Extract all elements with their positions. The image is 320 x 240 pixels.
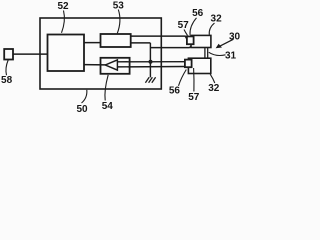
leader for 58	[6, 60, 8, 75]
wire 52 to 53	[84, 42, 101, 44]
ground symbol	[145, 77, 155, 83]
leader for 54	[105, 75, 108, 101]
wire 52 to 54 (amplifier input)	[84, 64, 106, 66]
svg-text:58: 58	[1, 75, 13, 86]
svg-text:32: 32	[208, 83, 220, 94]
leader for 56 (bottom)	[179, 70, 187, 86]
block 53	[101, 34, 131, 47]
leader for 32 (top)	[209, 23, 214, 35]
contact 56/57 (bottom)	[185, 60, 192, 68]
wire Q: amp output 2 to bottom contact	[117, 66, 186, 68]
ground drop wire	[149, 43, 151, 78]
wire D: branch to top contact lower pin	[150, 45, 193, 48]
svg-text:56: 56	[169, 86, 181, 97]
leader for 50	[82, 90, 87, 103]
contact 57/56 (top)	[187, 36, 194, 44]
connector box 32 (bottom)	[188, 58, 210, 73]
svg-text:57: 57	[188, 92, 200, 103]
svg-text:31: 31	[225, 51, 237, 62]
wire B: 53 lower output	[131, 42, 151, 44]
op-amp triangle in 54	[105, 60, 117, 70]
leader for 57 (top)	[184, 30, 188, 36]
wire P: amp output to bottom contact	[117, 61, 187, 63]
svg-text:32: 32	[211, 14, 223, 25]
link 31 between connectors	[205, 48, 208, 59]
svg-text:54: 54	[102, 101, 114, 112]
svg-text:30: 30	[229, 31, 240, 42]
leader for 52	[62, 11, 65, 33]
svg-text:56: 56	[192, 8, 204, 19]
connector box 32 (top)	[191, 35, 211, 47]
leader for 32 (bottom)	[210, 74, 215, 83]
leader for 53	[117, 10, 120, 34]
junction node dot	[149, 60, 153, 64]
leader for 56 (top)	[190, 18, 197, 35]
svg-text:53: 53	[113, 0, 125, 11]
leader for 57 (bottom)	[193, 68, 195, 92]
arrow 30	[216, 39, 234, 48]
leader for 31	[209, 52, 226, 55]
svg-text:57: 57	[178, 20, 190, 31]
wire A: 53 to top contact 57	[131, 36, 187, 39]
svg-text:52: 52	[57, 1, 69, 12]
wire from 58 to 52	[13, 53, 48, 55]
svg-text:50: 50	[76, 104, 88, 114]
block 52	[48, 35, 85, 72]
block 54	[101, 58, 130, 74]
enclosure box 50	[40, 18, 161, 89]
sensor box 58	[4, 49, 13, 60]
